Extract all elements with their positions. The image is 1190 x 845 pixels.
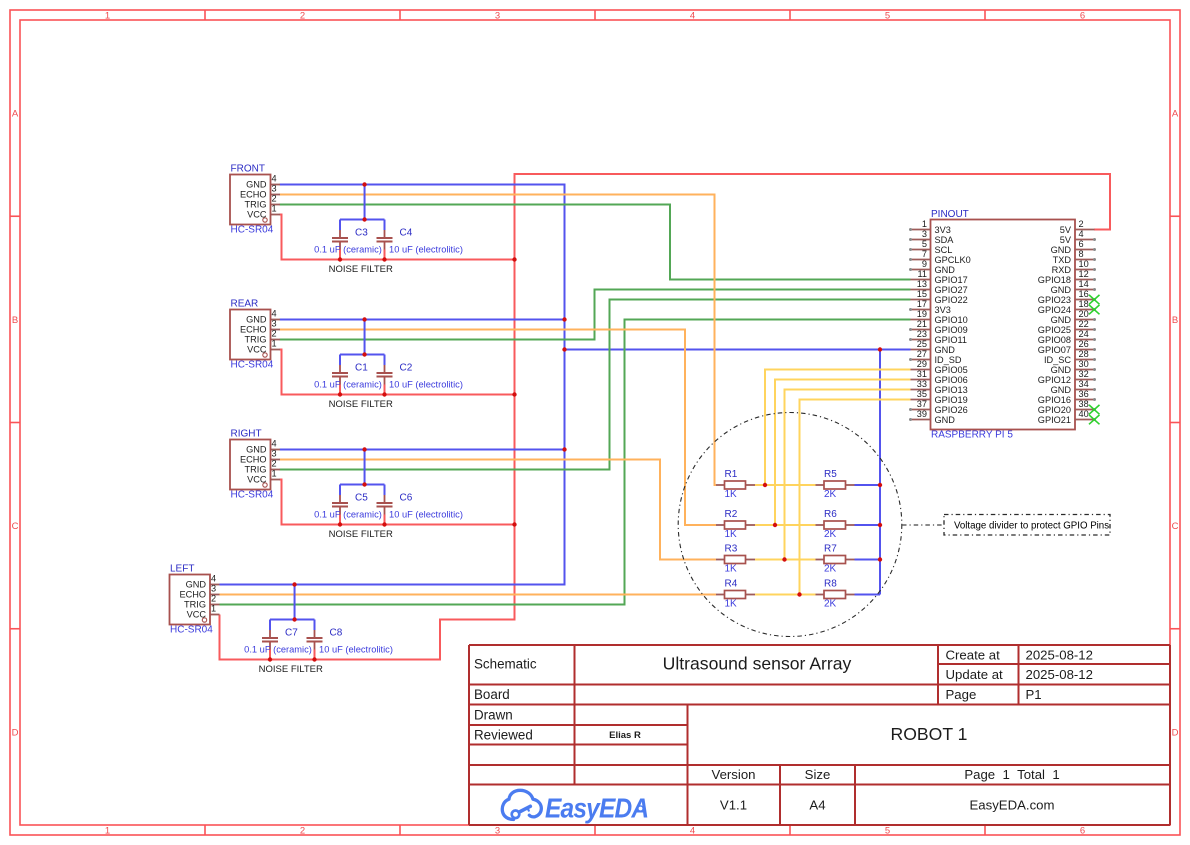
svg-text:10 uF (electrolitic): 10 uF (electrolitic) [319, 645, 393, 655]
svg-text:GPIO22: GPIO22 [935, 295, 968, 305]
svg-text:B: B [12, 315, 18, 326]
svg-text:HC-SR04: HC-SR04 [231, 490, 274, 501]
svg-text:36: 36 [1079, 389, 1089, 399]
svg-text:ECHO: ECHO [240, 325, 267, 335]
svg-text:7: 7 [922, 249, 927, 259]
svg-text:31: 31 [917, 369, 927, 379]
svg-text:GND: GND [246, 180, 267, 190]
svg-text:Elias R: Elias R [609, 730, 641, 741]
svg-text:4: 4 [690, 825, 695, 836]
svg-text:5V: 5V [1060, 225, 1072, 235]
svg-text:ROBOT 1: ROBOT 1 [891, 724, 968, 744]
svg-text:3: 3 [495, 825, 500, 836]
svg-text:5: 5 [885, 10, 890, 21]
svg-text:R1: R1 [725, 469, 738, 480]
svg-text:29: 29 [917, 359, 927, 369]
svg-text:A4: A4 [809, 798, 825, 813]
svg-text:ECHO: ECHO [240, 455, 267, 465]
svg-text:39: 39 [917, 409, 927, 419]
svg-text:TXD: TXD [1053, 255, 1072, 265]
svg-text:PINOUT: PINOUT [931, 209, 969, 220]
svg-text:Version: Version [712, 767, 756, 782]
svg-text:ID_SC: ID_SC [1044, 355, 1071, 365]
svg-text:4: 4 [211, 574, 216, 584]
svg-text:1: 1 [105, 10, 110, 21]
svg-text:4: 4 [272, 309, 277, 319]
svg-text:Drawn: Drawn [474, 708, 513, 723]
svg-text:RXD: RXD [1052, 265, 1072, 275]
svg-text:Update at: Update at [946, 667, 1004, 682]
svg-text:SDA: SDA [935, 235, 955, 245]
svg-text:GND: GND [935, 345, 956, 355]
svg-text:8: 8 [1079, 249, 1084, 259]
svg-text:3: 3 [272, 184, 277, 194]
svg-text:12: 12 [1079, 269, 1089, 279]
svg-text:C3: C3 [355, 228, 368, 239]
svg-text:2: 2 [272, 194, 277, 204]
svg-text:ECHO: ECHO [179, 590, 206, 600]
svg-text:10 uF (electrolitic): 10 uF (electrolitic) [389, 510, 463, 520]
svg-text:13: 13 [917, 279, 927, 289]
svg-text:2K: 2K [824, 489, 837, 500]
svg-text:1K: 1K [725, 599, 738, 610]
svg-text:2K: 2K [824, 529, 837, 540]
svg-text:LEFT: LEFT [170, 564, 194, 575]
svg-text:2: 2 [300, 10, 305, 21]
svg-text:GND: GND [186, 580, 207, 590]
svg-text:REAR: REAR [231, 299, 259, 310]
svg-text:GPIO09: GPIO09 [935, 325, 968, 335]
svg-text:TRIG: TRIG [245, 200, 267, 210]
svg-text:3: 3 [272, 319, 277, 329]
svg-text:22: 22 [1079, 319, 1089, 329]
svg-text:Voltage divider to protect GPI: Voltage divider to protect GPIO Pins [954, 520, 1109, 531]
svg-text:P1: P1 [1026, 687, 1042, 702]
svg-text:21: 21 [917, 319, 927, 329]
svg-text:VCC: VCC [247, 345, 267, 355]
svg-text:C8: C8 [330, 628, 343, 639]
svg-text:GPIO23: GPIO23 [1038, 295, 1071, 305]
svg-text:35: 35 [917, 389, 927, 399]
svg-text:TRIG: TRIG [245, 465, 267, 475]
svg-text:Board: Board [474, 687, 510, 702]
svg-text:Reviewed: Reviewed [474, 728, 533, 743]
svg-text:GPIO08: GPIO08 [1038, 335, 1071, 345]
svg-text:0.1 uF (ceramic): 0.1 uF (ceramic) [314, 380, 382, 390]
svg-text:5: 5 [922, 239, 927, 249]
svg-text:ECHO: ECHO [240, 190, 267, 200]
svg-text:2: 2 [272, 459, 277, 469]
svg-text:GND: GND [1051, 365, 1072, 375]
svg-text:VCC: VCC [247, 475, 267, 485]
svg-text:4: 4 [1079, 229, 1084, 239]
svg-text:23: 23 [917, 329, 927, 339]
svg-text:19: 19 [917, 309, 927, 319]
svg-text:EasyEDA.com: EasyEDA.com [969, 798, 1054, 813]
svg-text:C1: C1 [355, 363, 368, 374]
svg-text:0.1 uF (ceramic): 0.1 uF (ceramic) [314, 510, 382, 520]
svg-text:10 uF (electrolitic): 10 uF (electrolitic) [389, 245, 463, 255]
svg-text:24: 24 [1079, 329, 1089, 339]
svg-text:GPIO20: GPIO20 [1038, 405, 1071, 415]
svg-text:1: 1 [922, 219, 927, 229]
svg-text:3V3: 3V3 [935, 305, 951, 315]
svg-text:0.1 uF (ceramic): 0.1 uF (ceramic) [244, 645, 312, 655]
svg-text:1: 1 [105, 825, 110, 836]
svg-text:HC-SR04: HC-SR04 [231, 225, 274, 236]
svg-text:TRIG: TRIG [184, 600, 206, 610]
svg-text:GPIO19: GPIO19 [935, 395, 968, 405]
svg-text:GPIO05: GPIO05 [935, 365, 968, 375]
svg-text:GPIO11: GPIO11 [935, 335, 968, 345]
svg-text:A: A [1172, 109, 1179, 120]
svg-text:32: 32 [1079, 369, 1089, 379]
svg-text:Ultrasound sensor Array: Ultrasound sensor Array [663, 654, 852, 674]
svg-text:34: 34 [1079, 379, 1089, 389]
svg-text:NOISE FILTER: NOISE FILTER [329, 399, 393, 410]
svg-text:SCL: SCL [935, 245, 953, 255]
svg-text:TRIG: TRIG [245, 335, 267, 345]
svg-text:GPIO26: GPIO26 [935, 405, 968, 415]
svg-text:20: 20 [1079, 309, 1089, 319]
svg-text:GPIO25: GPIO25 [1038, 325, 1071, 335]
svg-text:2025-08-12: 2025-08-12 [1026, 667, 1093, 682]
svg-text:2: 2 [300, 825, 305, 836]
svg-text:1: 1 [272, 339, 277, 349]
svg-text:R3: R3 [725, 544, 738, 555]
svg-text:HC-SR04: HC-SR04 [170, 625, 213, 636]
svg-text:14: 14 [1079, 279, 1089, 289]
svg-text:HC-SR04: HC-SR04 [231, 360, 274, 371]
svg-text:Size: Size [805, 767, 831, 782]
svg-text:C7: C7 [285, 628, 298, 639]
svg-text:5V: 5V [1060, 235, 1072, 245]
svg-text:3: 3 [211, 584, 216, 594]
svg-text:GND: GND [246, 445, 267, 455]
svg-text:ID_SD: ID_SD [935, 355, 962, 365]
svg-text:25: 25 [917, 339, 927, 349]
svg-text:Page 1 Total 1: Page 1 Total 1 [964, 767, 1059, 782]
svg-text:6: 6 [1079, 239, 1084, 249]
svg-text:2K: 2K [824, 564, 837, 575]
svg-text:3V3: 3V3 [935, 225, 951, 235]
svg-text:Page: Page [946, 687, 977, 702]
svg-text:30: 30 [1079, 359, 1089, 369]
svg-text:Create at: Create at [946, 647, 1001, 662]
svg-text:RASPBERRY PI 5: RASPBERRY PI 5 [931, 430, 1013, 441]
svg-text:2025-08-12: 2025-08-12 [1026, 647, 1093, 662]
svg-text:R4: R4 [725, 579, 738, 590]
svg-text:GPIO17: GPIO17 [935, 275, 968, 285]
svg-text:R7: R7 [824, 544, 837, 555]
svg-text:27: 27 [917, 349, 927, 359]
svg-text:VCC: VCC [247, 210, 267, 220]
svg-text:1: 1 [272, 469, 277, 479]
svg-text:6: 6 [1080, 10, 1085, 21]
svg-text:GND: GND [935, 265, 956, 275]
svg-text:NOISE FILTER: NOISE FILTER [329, 529, 393, 540]
svg-text:10 uF (electrolitic): 10 uF (electrolitic) [389, 380, 463, 390]
svg-text:GPIO24: GPIO24 [1038, 305, 1071, 315]
svg-text:18: 18 [1079, 299, 1089, 309]
svg-text:GPIO16: GPIO16 [1038, 395, 1071, 405]
svg-text:17: 17 [917, 299, 927, 309]
svg-text:11: 11 [917, 269, 927, 279]
svg-text:4: 4 [272, 174, 277, 184]
svg-text:GPIO12: GPIO12 [1038, 375, 1071, 385]
svg-text:R8: R8 [824, 579, 837, 590]
svg-text:40: 40 [1079, 409, 1089, 419]
svg-text:28: 28 [1079, 349, 1089, 359]
svg-text:38: 38 [1079, 399, 1089, 409]
svg-text:FRONT: FRONT [231, 164, 265, 175]
svg-text:RIGHT: RIGHT [231, 429, 262, 440]
svg-text:GND: GND [1051, 245, 1072, 255]
svg-text:B: B [1172, 315, 1178, 326]
svg-text:4: 4 [272, 439, 277, 449]
svg-text:GND: GND [1051, 385, 1072, 395]
svg-text:2: 2 [211, 594, 216, 604]
svg-text:GPIO13: GPIO13 [935, 385, 968, 395]
svg-text:5: 5 [885, 825, 890, 836]
svg-text:GND: GND [246, 315, 267, 325]
svg-text:26: 26 [1079, 339, 1089, 349]
svg-text:R5: R5 [824, 469, 837, 480]
svg-text:9: 9 [922, 259, 927, 269]
svg-text:2K: 2K [824, 599, 837, 610]
svg-text:GND: GND [935, 415, 956, 425]
svg-text:1: 1 [211, 604, 216, 614]
svg-text:GPIO07: GPIO07 [1038, 345, 1071, 355]
svg-text:GPIO06: GPIO06 [935, 375, 968, 385]
svg-text:D: D [12, 727, 19, 738]
svg-text:3: 3 [495, 10, 500, 21]
svg-text:GPIO10: GPIO10 [935, 315, 968, 325]
svg-text:VCC: VCC [187, 610, 207, 620]
svg-text:A: A [12, 109, 19, 120]
svg-text:2: 2 [272, 329, 277, 339]
svg-text:3: 3 [922, 229, 927, 239]
svg-text:16: 16 [1079, 289, 1089, 299]
svg-text:Schematic: Schematic [474, 657, 537, 672]
svg-text:GND: GND [1051, 315, 1072, 325]
svg-text:R6: R6 [824, 509, 837, 520]
svg-text:1: 1 [272, 204, 277, 214]
svg-text:NOISE FILTER: NOISE FILTER [329, 264, 393, 275]
svg-text:GPIO18: GPIO18 [1038, 275, 1071, 285]
svg-text:GPIO21: GPIO21 [1038, 415, 1071, 425]
svg-text:C2: C2 [400, 363, 413, 374]
svg-text:1K: 1K [725, 529, 738, 540]
svg-text:C4: C4 [400, 228, 413, 239]
svg-text:C6: C6 [400, 493, 413, 504]
svg-text:1K: 1K [725, 489, 738, 500]
svg-text:4: 4 [690, 10, 695, 21]
svg-text:15: 15 [917, 289, 927, 299]
svg-text:6: 6 [1080, 825, 1085, 836]
svg-text:C5: C5 [355, 493, 368, 504]
svg-text:10: 10 [1079, 259, 1089, 269]
svg-text:GPCLK0: GPCLK0 [935, 255, 971, 265]
svg-text:3: 3 [272, 449, 277, 459]
svg-text:GND: GND [1051, 285, 1072, 295]
svg-text:37: 37 [917, 399, 927, 409]
svg-text:0.1 uF (ceramic): 0.1 uF (ceramic) [314, 245, 382, 255]
svg-text:33: 33 [917, 379, 927, 389]
svg-text:GPIO27: GPIO27 [935, 285, 968, 295]
svg-text:V1.1: V1.1 [720, 798, 747, 813]
svg-text:C: C [1172, 521, 1179, 532]
svg-text:D: D [1172, 727, 1179, 738]
svg-text:NOISE FILTER: NOISE FILTER [259, 664, 323, 675]
svg-text:EasyEDA: EasyEDA [545, 792, 648, 824]
svg-text:1K: 1K [725, 564, 738, 575]
svg-text:C: C [12, 521, 19, 532]
svg-text:R2: R2 [725, 509, 738, 520]
svg-text:2: 2 [1079, 219, 1084, 229]
